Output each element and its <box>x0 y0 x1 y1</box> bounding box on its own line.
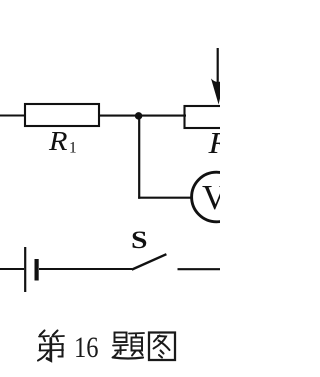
svg-text:V: V <box>202 178 220 217</box>
wire junction down <box>138 115 140 199</box>
switch S lever <box>132 254 167 269</box>
svg-text:R: R <box>48 125 68 156</box>
wire left to battery <box>0 268 24 270</box>
svg-text:S: S <box>131 225 148 254</box>
wire R1 to R2 <box>99 115 186 117</box>
voltmeter V <box>192 172 242 222</box>
rheostat R2 wiper arrow <box>211 48 225 105</box>
rheostat R2 box <box>185 106 225 128</box>
resistor R1 <box>25 104 99 126</box>
label R1 <box>48 125 77 157</box>
wire switch to right edge <box>178 268 221 270</box>
wire to voltmeter <box>138 197 192 199</box>
caption char 图 <box>149 333 175 361</box>
battery <box>25 247 36 292</box>
caption char 第 <box>38 331 64 361</box>
svg-text:16: 16 <box>74 332 99 364</box>
caption char 题 <box>113 333 145 359</box>
wire battery to switch <box>39 268 132 270</box>
node junction dot <box>135 112 143 120</box>
svg-text:1: 1 <box>69 140 77 157</box>
wire left to R1 <box>0 114 26 116</box>
svg-text:R: R <box>207 125 220 160</box>
